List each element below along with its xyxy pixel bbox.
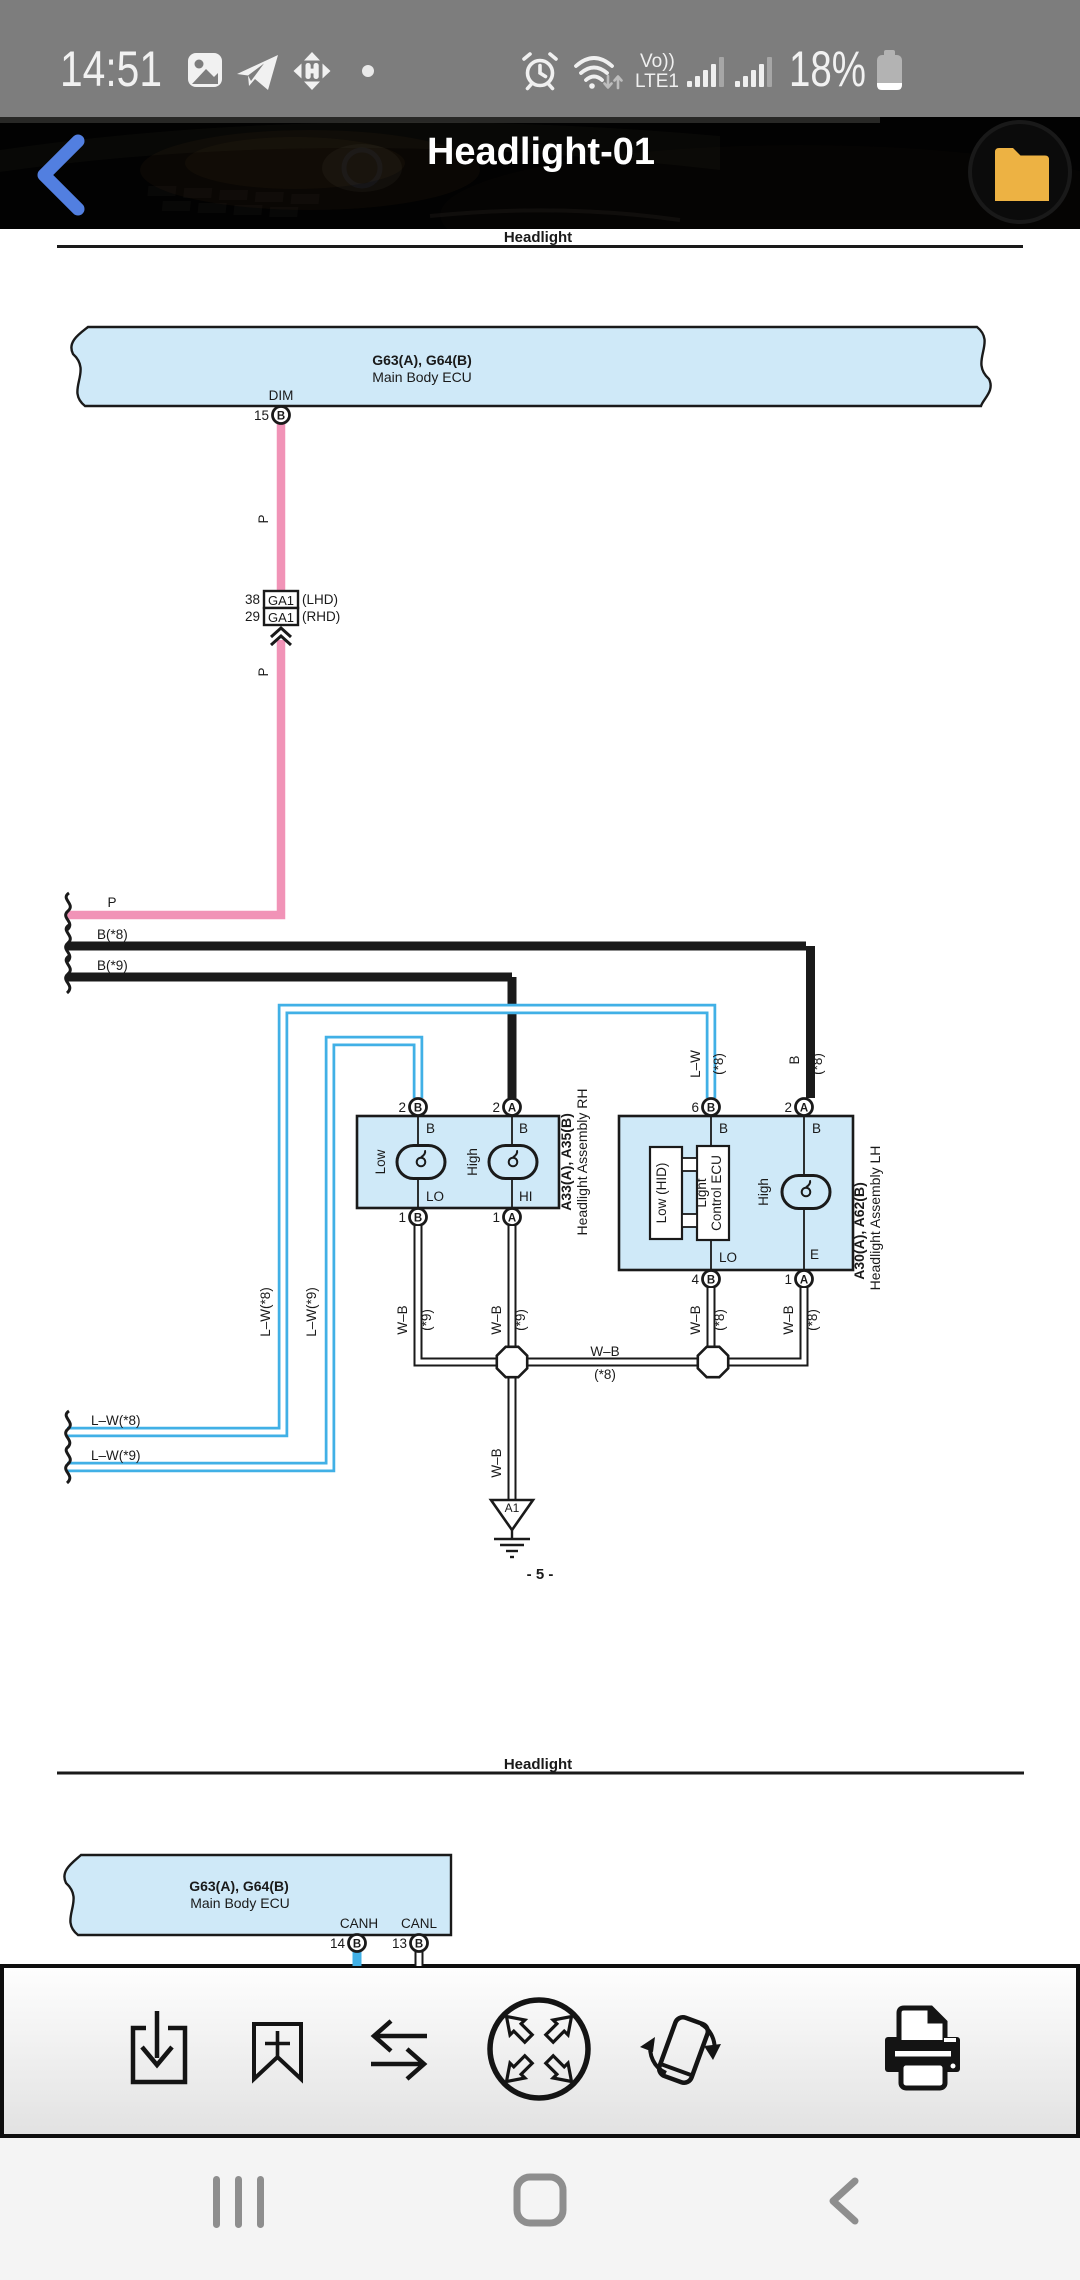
svg-text:A: A: [800, 1103, 808, 1115]
svg-text:LO: LO: [426, 1189, 444, 1204]
svg-text:CANL: CANL: [401, 1916, 438, 1931]
svg-text:GA1: GA1: [268, 610, 294, 625]
svg-text:P: P: [256, 667, 271, 676]
svg-text:2: 2: [784, 1100, 792, 1115]
svg-text:W–B: W–B: [489, 1305, 504, 1334]
svg-text:(*8): (*8): [810, 1053, 825, 1075]
svg-text:P: P: [256, 514, 271, 523]
svg-text:LTE1: LTE1: [635, 71, 679, 92]
svg-text:(*8): (*8): [594, 1367, 616, 1382]
svg-text:1: 1: [492, 1210, 500, 1225]
svg-text:6: 6: [691, 1100, 699, 1115]
svg-text:A: A: [508, 1103, 516, 1115]
svg-text:B: B: [707, 1103, 715, 1115]
svg-text:L–W: L–W: [688, 1050, 703, 1078]
svg-text:15: 15: [254, 408, 269, 423]
svg-text:B: B: [787, 1055, 802, 1064]
svg-text:High: High: [756, 1178, 771, 1206]
svg-text:14:51: 14:51: [60, 41, 162, 97]
svg-text:W–B: W–B: [781, 1305, 796, 1334]
svg-text:A33(A), A35(B): A33(A), A35(B): [558, 1113, 574, 1211]
svg-text:1: 1: [784, 1272, 792, 1287]
svg-text:Control ECU: Control ECU: [709, 1155, 724, 1231]
svg-text:W–B: W–B: [489, 1448, 504, 1477]
svg-text:B(*8): B(*8): [97, 927, 128, 942]
svg-text:A1: A1: [505, 1501, 520, 1515]
svg-text:G63(A), G64(B): G63(A), G64(B): [372, 352, 472, 368]
svg-text:(*8): (*8): [712, 1309, 727, 1331]
svg-text:Headlight: Headlight: [504, 229, 572, 246]
svg-text:B(*9): B(*9): [97, 958, 128, 973]
svg-text:- 5 -: - 5 -: [527, 1566, 554, 1583]
svg-text:18%: 18%: [789, 41, 866, 97]
svg-text:L–W(*9): L–W(*9): [304, 1287, 319, 1337]
svg-text:(LHD): (LHD): [302, 592, 338, 607]
svg-text:(*9): (*9): [513, 1309, 528, 1331]
svg-text:B: B: [414, 1213, 422, 1225]
svg-text:(*8): (*8): [805, 1309, 820, 1331]
svg-text:GA1: GA1: [268, 593, 294, 608]
svg-text:Headlight Assembly LH: Headlight Assembly LH: [867, 1146, 883, 1291]
svg-text:4: 4: [691, 1272, 699, 1287]
svg-text:B: B: [414, 1103, 422, 1115]
svg-text:Main Body ECU: Main Body ECU: [372, 369, 472, 385]
svg-text:14: 14: [330, 1936, 346, 1951]
svg-text:2: 2: [398, 1100, 406, 1115]
svg-text:W–B: W–B: [688, 1305, 703, 1334]
svg-text:Vo)): Vo)): [640, 51, 675, 72]
svg-text:1: 1: [398, 1210, 406, 1225]
svg-text:(RHD): (RHD): [302, 609, 340, 624]
svg-text:L–W(*8): L–W(*8): [258, 1287, 273, 1337]
svg-text:B: B: [426, 1121, 435, 1136]
svg-text:(*8): (*8): [711, 1053, 726, 1075]
svg-text:DIM: DIM: [269, 388, 294, 403]
svg-text:29: 29: [245, 609, 260, 624]
svg-text:L–W(*9): L–W(*9): [91, 1448, 141, 1463]
svg-text:W–B: W–B: [395, 1305, 410, 1334]
svg-text:E: E: [810, 1247, 819, 1262]
svg-text:A: A: [800, 1275, 808, 1287]
svg-text:High: High: [465, 1148, 480, 1176]
svg-text:(*9): (*9): [419, 1309, 434, 1331]
svg-text:CANH: CANH: [340, 1916, 378, 1931]
svg-text:A: A: [508, 1213, 516, 1225]
svg-text:Low (HID): Low (HID): [654, 1163, 669, 1224]
svg-text:Main Body ECU: Main Body ECU: [190, 1895, 290, 1911]
svg-text:B: B: [812, 1121, 821, 1136]
svg-text:Light: Light: [694, 1178, 709, 1208]
svg-text:B: B: [719, 1121, 728, 1136]
svg-text:B: B: [519, 1121, 528, 1136]
svg-text:Low: Low: [373, 1149, 388, 1174]
svg-text:2: 2: [492, 1100, 500, 1115]
svg-text:B: B: [353, 1939, 361, 1951]
svg-text:B: B: [277, 411, 285, 423]
svg-text:Headlight Assembly RH: Headlight Assembly RH: [574, 1088, 590, 1235]
svg-text:13: 13: [392, 1936, 407, 1951]
svg-text:P: P: [107, 895, 116, 910]
svg-text:G63(A), G64(B): G63(A), G64(B): [189, 1878, 289, 1894]
svg-text:W–B: W–B: [590, 1344, 619, 1359]
svg-text:L–W(*8): L–W(*8): [91, 1413, 141, 1428]
svg-text:HI: HI: [519, 1189, 533, 1204]
svg-text:A30(A), A62(B): A30(A), A62(B): [851, 1182, 867, 1280]
svg-text:LO: LO: [719, 1250, 737, 1265]
svg-text:Headlight-01: Headlight-01: [427, 131, 655, 173]
svg-text:38: 38: [245, 592, 260, 607]
svg-text:Headlight: Headlight: [504, 1756, 572, 1773]
svg-text:B: B: [415, 1939, 423, 1951]
svg-text:B: B: [707, 1275, 715, 1287]
